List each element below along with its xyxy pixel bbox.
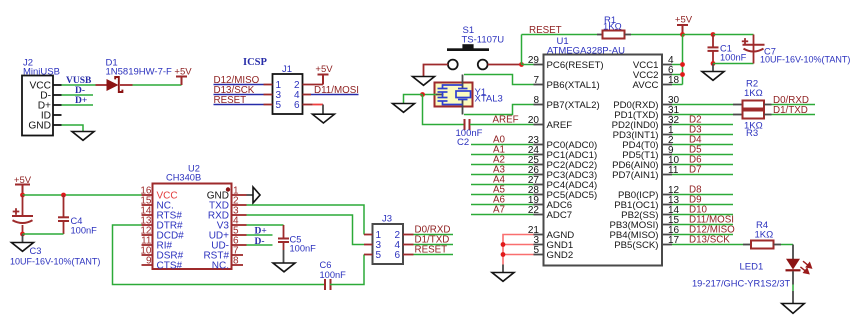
wire V3 to C5: [247, 224, 284, 226]
svg-text:D13/SCK: D13/SCK: [689, 235, 730, 246]
wire +5V down to U1 VCC pins: [682, 35, 684, 85]
diode D1 1N5819HW-7-F (schottky): [96, 58, 173, 93]
wire D4: [672, 144, 733, 146]
wire C1 bottom to ground: [712, 64, 714, 72]
ground (below C3): [12, 243, 34, 252]
wire RXD (U2.3 to J3.3): [247, 215, 365, 245]
svg-text:D1/TXD: D1/TXD: [773, 105, 808, 116]
wire D0/RXD (from J3.2): [414, 234, 454, 236]
capacitor C5 100nF: [278, 225, 316, 254]
wire A7 (U1 ADC7): [471, 214, 534, 216]
capacitor C6 100nF: [320, 260, 347, 290]
wire D12/MISO (to J1.1): [214, 84, 264, 86]
svg-text:6: 6: [294, 100, 300, 111]
wire S1 left contact to ground: [424, 65, 448, 77]
wire D1/TXD (right of R3): [772, 114, 816, 116]
wire J1.6 to ground: [303, 104, 313, 106]
wire D0/RXD (right of R2): [772, 104, 816, 106]
svg-text:AREF: AREF: [493, 115, 519, 126]
wire RESET (from J3.6): [414, 254, 454, 256]
wire D+ (from U2.UD+): [247, 234, 273, 236]
wire C2 to U1.AREF: [470, 124, 534, 126]
junction C4 top: [61, 193, 66, 198]
wire XTAL1 (U1.7 to Y1): [464, 75, 534, 85]
svg-text:NC.: NC.: [212, 261, 229, 272]
svg-text:AREF: AREF: [547, 120, 573, 131]
junction VCC2: [680, 72, 685, 77]
capacitor C4 100nF: [58, 195, 97, 236]
IC U1 ATMEGA328P-AU: [528, 36, 680, 266]
resistor R2 1KOhm: [733, 79, 772, 109]
svg-text:10UF-16V-10%(TANT): 10UF-16V-10%(TANT): [10, 257, 100, 267]
svg-text:+5V: +5V: [675, 15, 693, 26]
wire RESET vertical: [521, 35, 523, 65]
junction crystal gnd: [420, 92, 425, 97]
wire TXD (U2.2 to J3.1): [247, 205, 365, 235]
wire D2: [672, 124, 733, 126]
svg-text:C3: C3: [30, 246, 42, 256]
svg-text:1KΩ: 1KΩ: [755, 230, 774, 241]
wire D13/SCK (to J1.3): [214, 94, 264, 96]
power +5V (top right): [677, 24, 688, 26]
svg-text:6: 6: [394, 250, 400, 261]
wire D12/MISO: [672, 234, 733, 236]
wire PD0 to R2: [672, 104, 733, 106]
wire D11/MOSI (from J1.4): [311, 94, 359, 96]
wire R4 to LED1: [781, 244, 793, 246]
wire A4 (U1 ADC4): [471, 184, 534, 186]
wire C3 bottom to ground: [22, 234, 24, 243]
svg-text:D11/MOSI: D11/MOSI: [314, 85, 359, 96]
ground (below U1): [492, 273, 514, 282]
svg-text:R3: R3: [746, 128, 758, 139]
svg-text:+5V: +5V: [14, 175, 32, 186]
junction C1 bottom: [711, 61, 716, 66]
wire Y1 gnd pin to junction: [423, 94, 437, 96]
IC U2 CH340B: [140, 164, 246, 272]
svg-text:ADC7: ADC7: [547, 210, 573, 221]
wire A0 (U1 ADC0): [471, 144, 534, 146]
wire D11/MOSI: [672, 224, 733, 226]
junction +5V/C3: [20, 193, 25, 198]
capacitor C1 100nF: [708, 35, 747, 64]
svg-text:AVCC: AVCC: [633, 80, 659, 91]
svg-text:D-: D-: [75, 86, 85, 96]
ground (below J2): [72, 132, 94, 141]
capacitor C3 10UF (tantalum, polarized): [10, 195, 100, 267]
junction +5V stem: [680, 32, 685, 37]
wire D13/SCK to R4: [672, 244, 743, 246]
svg-text:RESET: RESET: [415, 245, 448, 256]
junction GND1: [501, 242, 506, 247]
wire C1 top to C7 top: [713, 34, 754, 36]
capacitor C7 10UF (tantalum, polarized): [742, 35, 851, 65]
wire C1 bottom to C7 bottom: [713, 63, 754, 65]
svg-text:GND2: GND2: [547, 250, 574, 261]
wire C3-C4 bottoms: [23, 233, 64, 235]
svg-text:PC6(RESET): PC6(RESET): [547, 60, 604, 71]
wire PD1 to R3: [672, 114, 733, 116]
wire junction to ground: [404, 95, 423, 104]
wire D10: [672, 214, 733, 216]
wire RESET to R1: [522, 34, 598, 36]
wire D5: [672, 154, 733, 156]
svg-text:C6: C6: [320, 260, 332, 270]
wire D6: [672, 164, 733, 166]
svg-text:ICSP: ICSP: [243, 57, 268, 68]
wire C5 to ground: [283, 250, 285, 263]
wire S1 right contact to RESET node: [488, 64, 522, 66]
svg-text:19-217/GHC-YR1S2/3T: 19-217/GHC-YR1S2/3T: [692, 279, 790, 289]
power +5V (near U2): [15, 184, 30, 186]
svg-text:5: 5: [276, 100, 282, 111]
wire RESET node to U1 pin29: [522, 64, 534, 66]
junction C3 bottom: [20, 232, 25, 237]
svg-text:PB6(XTAL1): PB6(XTAL1): [547, 80, 600, 91]
wire A5 (U1 ADC5): [471, 194, 534, 196]
wire GND2 branch: [503, 254, 534, 256]
connector J1 (ICSP header): [264, 64, 312, 114]
wire A3 (U1 ADC3): [471, 174, 534, 176]
wire +5V node to C1: [683, 34, 714, 36]
wire VCC1 branch: [672, 64, 683, 66]
wire D- (from J2): [62, 94, 94, 96]
resistor R4 1KOhm: [743, 220, 781, 249]
ground (right of U2, rotated): [253, 187, 260, 203]
crystal Y1 XTAL3 (resonator): [435, 75, 503, 115]
wire GND rail to ground: [502, 265, 504, 273]
ground (near Y1): [393, 104, 415, 113]
power +5V (near D1): [176, 76, 187, 78]
svg-text:100nF: 100nF: [720, 53, 747, 63]
svg-text:1KΩ: 1KΩ: [744, 88, 763, 99]
wire D1/TXD (from J3.4): [414, 244, 454, 246]
svg-text:+5V: +5V: [174, 67, 192, 78]
wire D3: [672, 134, 733, 136]
svg-text:D-: D-: [255, 237, 265, 247]
wire J2.GND to ground: [62, 125, 84, 132]
svg-text:PB7(XTAL2): PB7(XTAL2): [547, 100, 600, 111]
wire +5V to U2.VCC: [23, 194, 142, 196]
wire VUSB (J2.VCC to D1 anode): [62, 84, 96, 86]
LED LED1: [692, 259, 811, 289]
ground (below J1): [312, 114, 334, 123]
wire J1.2 to +5V: [303, 84, 324, 86]
wire VCC2 branch: [672, 74, 683, 76]
resistor R3 1KOhm: [733, 111, 772, 140]
wire RESET (to J1.5): [214, 104, 264, 106]
ground (below S1): [413, 77, 435, 86]
ground (below C1): [702, 72, 724, 81]
wire A6 (U1 ADC6): [471, 204, 534, 206]
wire D9: [672, 204, 733, 206]
junction GND2: [501, 252, 506, 257]
wire A2 (U1 ADC2): [471, 164, 534, 166]
wire C6 to J3.5: [330, 255, 364, 285]
junction C1 top: [711, 32, 716, 37]
svg-text:100nF: 100nF: [290, 244, 317, 254]
wire A1 (U1 ADC1): [471, 154, 534, 156]
wire D7: [672, 174, 733, 176]
svg-text:PD7(AIN1): PD7(AIN1): [612, 170, 658, 181]
svg-text:A7: A7: [493, 205, 505, 216]
svg-text:CTS#: CTS#: [157, 261, 183, 272]
svg-text:D+: D+: [75, 96, 87, 106]
wire R1 to +5V node: [631, 34, 683, 36]
svg-text:1N5819HW-7-F: 1N5819HW-7-F: [106, 67, 173, 78]
svg-text:D+: D+: [255, 227, 267, 237]
svg-text:C4: C4: [71, 216, 83, 226]
svg-text:C2: C2: [457, 137, 469, 148]
ground (below LED1): [782, 304, 805, 314]
wire D8: [672, 194, 733, 196]
svg-text:TS-1107U: TS-1107U: [462, 35, 505, 46]
svg-text:+5V: +5V: [315, 64, 333, 75]
wire U2.GND to ground: [247, 194, 254, 196]
svg-text:RESET: RESET: [214, 95, 247, 106]
svg-text:XTAL3: XTAL3: [475, 94, 503, 105]
ground (below C5): [273, 263, 295, 272]
wire D+ (from J2): [62, 104, 94, 106]
svg-text:100nF: 100nF: [320, 270, 347, 280]
wire AGND/GND rail: [503, 235, 534, 265]
wire AREF net down: [423, 95, 465, 125]
connector J2 (MiniUSB): [22, 58, 62, 136]
junction VCC1: [680, 62, 685, 67]
wire D- (from U2.UD-): [247, 244, 273, 246]
capacitor C2 100nF (AREF): [456, 119, 483, 148]
resistor R1 1KOhm: [597, 15, 631, 39]
svg-text:J3: J3: [382, 214, 392, 225]
svg-text:CH340B: CH340B: [166, 173, 201, 183]
wire AVCC branch: [672, 84, 683, 86]
wire DTR# to C6: [113, 225, 325, 285]
svg-text:5: 5: [376, 250, 382, 261]
svg-text:D7: D7: [689, 165, 702, 176]
power +5V (near J1): [318, 74, 329, 76]
svg-text:LED1: LED1: [740, 262, 764, 273]
wire XTAL2 (U1.8 to Y1): [464, 105, 534, 115]
svg-text:10UF-16V-10%(TANT): 10UF-16V-10%(TANT): [760, 55, 850, 65]
wire D1 cathode to +5V: [133, 84, 182, 86]
connector J3: [364, 214, 414, 265]
switch S1 TS-1107U: [447, 25, 504, 69]
wire LED1 cathode to ground: [792, 271, 794, 284]
svg-text:GND: GND: [28, 121, 51, 132]
svg-text:PB5(SCK): PB5(SCK): [614, 240, 658, 251]
svg-text:VUSB: VUSB: [66, 76, 92, 86]
junction RESET node: [519, 62, 524, 67]
wire GND1 branch: [503, 244, 534, 246]
svg-text:100nF: 100nF: [71, 226, 98, 236]
